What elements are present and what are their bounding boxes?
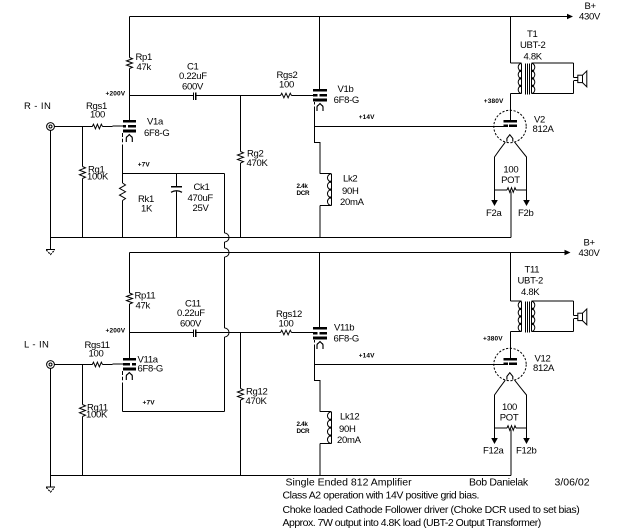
svg-text:100K: 100K <box>87 171 109 182</box>
svg-text:UBT-2: UBT-2 <box>520 40 545 51</box>
svg-text:3/06/02: 3/06/02 <box>555 476 590 488</box>
wire +7V to Rk1 <box>122 174 124 184</box>
wire pot wiper to ground rail <box>510 430 512 476</box>
wire shared cathode bus (top +7V to bottom +7V) <box>224 174 226 234</box>
svg-text:+14V: +14V <box>359 114 375 121</box>
wire Rp1 to +200V node <box>129 69 131 96</box>
wire rail to V1b plate <box>319 17 321 90</box>
wire rail to Rp1 <box>129 17 131 58</box>
resistor Rg1 <box>80 167 86 179</box>
wire +200V node to C11 <box>130 332 194 334</box>
wire to F2a <box>494 190 496 201</box>
svg-text:POT: POT <box>501 175 520 186</box>
node F12a arrow <box>491 438 498 444</box>
wire +7V cathode line <box>123 173 225 175</box>
svg-text:Bob Danielak: Bob Danielak <box>469 476 529 488</box>
svg-text:100: 100 <box>279 319 294 330</box>
resistor Rgs11 <box>92 362 102 367</box>
speaker <box>574 77 578 79</box>
svg-text:2.4k: 2.4k <box>297 183 309 190</box>
potentiometer 100 POT <box>495 427 508 429</box>
svg-text:+380V: +380V <box>483 336 503 343</box>
wire ground stub <box>50 476 52 488</box>
resistor Rk1 <box>120 183 126 201</box>
svg-text:V1a: V1a <box>147 117 164 128</box>
svg-text:100: 100 <box>502 402 517 413</box>
filament V2 <box>507 135 513 142</box>
svg-text:0.22uF: 0.22uF <box>179 71 207 82</box>
svg-text:100: 100 <box>279 80 294 91</box>
triode V1b 6F8-G section B <box>313 89 327 92</box>
wire input jack to ground <box>50 368 52 475</box>
svg-text:+380V: +380V <box>484 98 504 105</box>
wire secondary bottom <box>532 330 574 332</box>
wire B+ rail B+ 430V <box>130 252 565 254</box>
wire Rgs1 to V1a grid <box>103 125 123 128</box>
node F12b arrow <box>523 438 530 444</box>
resistor Rgs2 <box>281 93 292 98</box>
wire rail to T11 primary <box>510 253 512 302</box>
wire secondary top <box>532 62 574 64</box>
wire +14V to 812A grid <box>315 364 504 366</box>
wire node to V1a plate <box>129 96 131 121</box>
svg-text:V1b: V1b <box>338 84 354 95</box>
svg-text:20mA: 20mA <box>340 197 365 208</box>
svg-text:F2b: F2b <box>518 208 533 219</box>
wire input jack to ground <box>50 130 52 237</box>
svg-text:6F8-G: 6F8-G <box>334 95 359 106</box>
svg-text:V11b: V11b <box>334 323 354 334</box>
svg-text:+14V: +14V <box>359 353 375 360</box>
input connector J11 <box>47 361 55 369</box>
wire node to V11a plate <box>129 333 131 359</box>
node F2b arrow <box>523 200 530 206</box>
wire T1 to 812A plate <box>510 93 512 120</box>
svg-text:F12b: F12b <box>516 445 536 456</box>
svg-text:47k: 47k <box>136 301 151 312</box>
wire rail to T1 primary <box>510 17 512 64</box>
svg-text:F12a: F12a <box>483 445 504 456</box>
svg-text:+7V: +7V <box>138 162 151 169</box>
wire input to Rgs1 <box>54 126 92 128</box>
wire V11b cathode <box>315 340 321 412</box>
svg-text:0.22uF: 0.22uF <box>177 308 205 319</box>
wire node to Rg2 <box>240 96 242 152</box>
transformer T11 UBT-2 <box>511 300 522 302</box>
wire V11a cathode <box>122 371 124 412</box>
speaker <box>574 315 578 317</box>
resistor Rg11 <box>80 405 86 417</box>
filament V12 <box>507 373 513 380</box>
svg-text:Ck1: Ck1 <box>194 182 210 193</box>
svg-text:+7V: +7V <box>143 400 156 407</box>
resistor Rp11 <box>127 293 133 304</box>
svg-text:90H: 90H <box>342 186 359 197</box>
wire +14V to 812A grid <box>315 126 504 128</box>
svg-text:DCR: DCR <box>297 428 310 435</box>
svg-text:6F8-G: 6F8-G <box>144 128 169 139</box>
svg-text:Lk2: Lk2 <box>343 174 357 185</box>
triode V11a 6F8-G section A <box>123 358 136 361</box>
node B+ 430V arrow <box>567 14 573 20</box>
svg-text:B+: B+ <box>585 1 597 12</box>
capacitor C11 <box>193 330 195 337</box>
svg-text:T11: T11 <box>525 265 540 276</box>
wire Rgs12 to V11b grid <box>292 332 314 334</box>
wire ground rail <box>51 475 512 477</box>
wire hop over lower +200V line <box>225 328 230 337</box>
svg-text:812A: 812A <box>533 124 555 135</box>
svg-text:470K: 470K <box>246 396 268 407</box>
wire input to Rg11 <box>82 365 84 405</box>
wire Rgs11 to V11a grid <box>103 363 123 366</box>
input connector J1 <box>47 123 55 131</box>
svg-text:600V: 600V <box>180 319 202 330</box>
transformer T1 UBT-2 <box>511 62 522 64</box>
wire hop over lower B+ rail <box>225 248 230 257</box>
wire secondary top <box>532 300 574 302</box>
svg-text:Approx. 7W output into 4.8K lo: Approx. 7W output into 4.8K load (UBT-2 … <box>283 517 541 529</box>
resistor Rg2 <box>238 152 244 164</box>
wire V1b cathode <box>315 102 321 174</box>
wire pot wiper to ground rail <box>510 192 512 238</box>
wire to F12a <box>494 428 496 439</box>
node B+ 430V arrow <box>565 250 571 256</box>
wire input to Rgs11 <box>54 364 92 366</box>
svg-text:+200V: +200V <box>106 328 126 335</box>
wire rail to Rp11 <box>129 253 131 294</box>
svg-text:100K: 100K <box>86 409 108 420</box>
wire Rp11 to +200V node <box>129 304 131 333</box>
svg-text:DCR: DCR <box>297 190 310 197</box>
wire to F12b <box>526 428 528 439</box>
svg-text:90H: 90H <box>339 424 356 435</box>
svg-text:F2a: F2a <box>486 208 502 219</box>
svg-text:L - IN: L - IN <box>24 340 49 351</box>
power triode V2 812A <box>494 110 526 142</box>
wire Rg1 to ground rail <box>82 179 84 238</box>
wire ground rail <box>51 237 512 239</box>
capacitor Ck1 <box>176 174 178 187</box>
wire node to Rg12 <box>240 333 242 389</box>
wire V1a cathode <box>122 133 124 174</box>
wire Lk12 to ground rail <box>319 444 321 476</box>
svg-text:R - IN: R - IN <box>24 101 51 112</box>
triode V11b 6F8-G section B <box>313 327 327 330</box>
svg-text:T1: T1 <box>527 29 538 40</box>
capacitor C1 <box>193 93 195 100</box>
resistor Rg12 <box>238 389 244 401</box>
potentiometer 100 POT <box>495 189 508 191</box>
svg-text:430V: 430V <box>579 248 601 259</box>
svg-text:100: 100 <box>89 349 104 360</box>
wire hop over ground rail <box>225 233 230 242</box>
svg-text:430V: 430V <box>579 12 601 23</box>
svg-text:Lk12: Lk12 <box>340 412 359 423</box>
wire secondary bottom <box>532 92 574 94</box>
wire C11 to Rgs12 <box>196 332 280 334</box>
wire input to Rg1 <box>82 127 84 167</box>
wire Rg11 to ground rail <box>82 417 84 476</box>
svg-text:2.4k: 2.4k <box>297 421 309 428</box>
svg-text:100: 100 <box>90 110 105 121</box>
wire Rg2 to ground rail <box>240 163 242 238</box>
resistor Rgs1 <box>92 124 102 129</box>
wire Rk1 to ground rail <box>122 201 124 238</box>
resistor Rgs12 <box>281 330 292 335</box>
svg-text:6F8-G: 6F8-G <box>138 364 163 375</box>
wire to F2b <box>526 190 528 201</box>
wire +200V node to C1 <box>130 95 194 97</box>
node F2a arrow <box>491 200 498 206</box>
triode V1a 6F8-G section A <box>123 120 136 123</box>
svg-text:Class A2 operation with 14V po: Class A2 operation with 14V positive gri… <box>283 490 480 502</box>
svg-text:+200V: +200V <box>106 91 126 98</box>
wire Lk2 to ground rail <box>319 206 321 238</box>
svg-text:25V: 25V <box>193 203 210 214</box>
svg-text:4.8K: 4.8K <box>524 51 543 62</box>
power triode V12 812A <box>494 348 526 380</box>
ground <box>46 249 55 251</box>
svg-text:POT: POT <box>500 412 519 423</box>
svg-text:20mA: 20mA <box>337 435 362 446</box>
svg-text:Choke loaded Cathode Follower: Choke loaded Cathode Follower driver (Ch… <box>283 504 580 516</box>
wire rail to V11b plate <box>319 253 321 328</box>
wire C1 to Rgs2 <box>196 95 280 97</box>
svg-text:47k: 47k <box>137 62 152 73</box>
ground <box>46 486 55 488</box>
resistor Rp1 <box>127 58 133 69</box>
svg-text:100: 100 <box>503 165 518 176</box>
wire 812A filament legs <box>495 380 506 428</box>
svg-text:6F8-G: 6F8-G <box>334 334 359 345</box>
choke Lk12 90H <box>320 411 332 413</box>
wire B+ rail B+ 430V <box>130 16 567 18</box>
wire ground stub <box>50 238 52 250</box>
wire Rg12 to ground rail <box>240 400 242 476</box>
svg-text:B+: B+ <box>584 238 596 249</box>
wire 812A filament legs <box>495 142 506 190</box>
wire Rgs2 to V1b grid <box>292 95 314 97</box>
svg-text:UBT-2: UBT-2 <box>518 276 543 287</box>
svg-text:1K: 1K <box>141 204 153 215</box>
svg-text:600V: 600V <box>182 82 204 93</box>
choke Lk2 90H <box>320 173 332 175</box>
svg-text:812A: 812A <box>533 363 555 374</box>
svg-text:Single Ended 812 Amplifier: Single Ended 812 Amplifier <box>286 476 413 488</box>
svg-text:4.8K: 4.8K <box>521 287 540 298</box>
svg-text:470K: 470K <box>247 158 269 169</box>
wire +7V cathode line <box>123 411 225 413</box>
wire T11 to 812A plate <box>510 331 512 358</box>
